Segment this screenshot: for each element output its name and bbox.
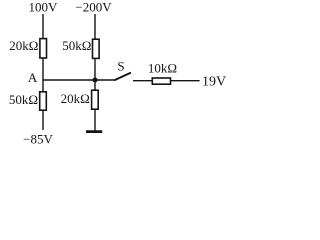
wire from R2 down to junction and on to resistor R4 — [94, 58, 96, 90]
svg-text:−85V: −85V — [23, 131, 53, 146]
wire from R5 to 19V terminal — [171, 80, 200, 82]
resistor R1 value label 20kΩ — [9, 38, 38, 53]
resistor R1 body (20kΩ, top left) — [40, 39, 47, 58]
ground symbol (earth bar) — [86, 130, 102, 133]
svg-text:−200V: −200V — [75, 0, 112, 15]
main horizontal wire from node A to switch left contact — [42, 79, 114, 81]
wire from R1 down through node A to resistor R3 — [42, 58, 44, 92]
resistor R2 body (50kΩ, top middle) — [93, 39, 100, 58]
svg-text:10kΩ: 10kΩ — [148, 61, 177, 76]
svg-text:50kΩ: 50kΩ — [62, 38, 91, 53]
wire from switch right contact to resistor R5 — [133, 80, 153, 82]
resistor R5 body (10kΩ, horizontal) — [152, 78, 170, 84]
switch name label S — [117, 59, 124, 74]
node +100V supply label — [29, 0, 59, 15]
resistor R4 value label 20kΩ — [61, 91, 90, 106]
node -200V supply label — [75, 0, 112, 15]
switch S blade (open, angled up-right) — [114, 73, 131, 81]
resistor R3 value label 50kΩ — [9, 92, 38, 107]
node 19V terminal label — [202, 75, 226, 90]
svg-text:20kΩ: 20kΩ — [61, 91, 90, 106]
resistor R4 body (20kΩ, bottom middle) — [92, 90, 99, 109]
resistor R3 body (50kΩ, bottom left) — [40, 92, 47, 110]
svg-text:50kΩ: 50kΩ — [9, 92, 38, 107]
junction dot at middle node — [93, 78, 98, 83]
node -85V supply label — [23, 131, 53, 146]
svg-text:A: A — [28, 70, 38, 85]
wire from R4 down to ground — [94, 109, 96, 130]
svg-text:19V: 19V — [202, 75, 226, 90]
wire from -200V label down to resistor R2 — [94, 14, 96, 40]
node A label — [28, 70, 38, 85]
svg-text:S: S — [117, 59, 124, 74]
svg-text:20kΩ: 20kΩ — [9, 38, 38, 53]
svg-text:100V: 100V — [29, 0, 59, 15]
wire from 100V label down to resistor R1 — [42, 14, 44, 39]
resistor R2 value label 50kΩ — [62, 38, 91, 53]
wire from R3 down to -85V label — [42, 110, 44, 130]
resistor R5 value label 10kΩ — [148, 61, 177, 76]
